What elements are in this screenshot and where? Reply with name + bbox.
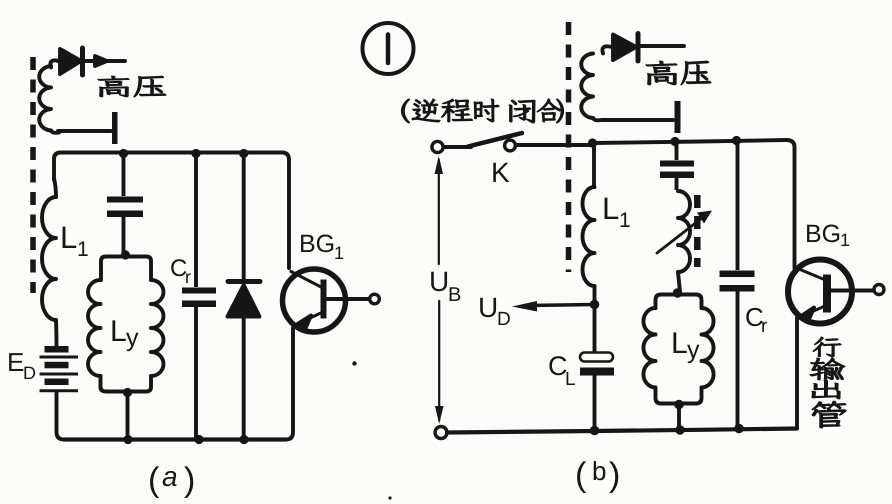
inductor L1 (a)	[42, 178, 57, 345]
svg-text:1: 1	[77, 238, 89, 261]
label Ly (a)	[110, 315, 139, 352]
label 高压 (a)	[98, 76, 166, 97]
svg-text:b: b	[592, 456, 606, 486]
label Cr (b)	[745, 302, 768, 337]
adjustable core dashes (b)	[694, 195, 701, 267]
label BG1 (a)	[299, 230, 344, 263]
rectifier diode (b)	[613, 34, 684, 62]
label BG1 (b)	[805, 220, 850, 250]
caption (a)	[148, 461, 195, 499]
svg-text:U: U	[478, 292, 498, 323]
adjust arrow through coil (b)	[657, 211, 712, 254]
svg-text:D: D	[23, 363, 36, 383]
transistor BG1 (a)	[283, 269, 380, 440]
svg-text:y: y	[687, 336, 700, 364]
svg-text:K: K	[491, 157, 510, 188]
scan speck 2	[388, 496, 391, 499]
label 行输出管 (line output transistor)	[810, 337, 846, 428]
svg-text:(: (	[575, 456, 587, 494]
svg-text:1: 1	[619, 209, 631, 232]
svg-text:y: y	[126, 324, 139, 352]
label UD	[478, 292, 511, 330]
wire bottom bus (b)	[447, 429, 797, 433]
label ED	[7, 347, 36, 383]
wire Ly bottom to bottom bus	[123, 388, 133, 444]
scan speck	[352, 361, 356, 365]
wire bottom bus (a)	[64, 437, 286, 441]
label K	[491, 157, 510, 188]
wire Ly bottom to bottom bus (b)	[674, 400, 685, 435]
svg-text:L: L	[60, 220, 77, 255]
svg-text:BG: BG	[805, 220, 841, 248]
svg-text:1: 1	[334, 243, 344, 263]
node Ly top (b)	[673, 288, 683, 298]
node CL / bottom bus (b)	[590, 426, 600, 436]
voltage arrow UD	[512, 301, 595, 312]
svg-text:L: L	[671, 327, 688, 360]
capacitor Cr (b)	[720, 136, 755, 433]
label 高压 (b)	[646, 61, 711, 85]
high-voltage winding coil (b)	[581, 46, 673, 120]
inductor L1 (b)	[583, 143, 595, 352]
HV output terminal bar (b)	[675, 101, 681, 133]
voltage arrow UB	[435, 156, 444, 424]
label L1 (a)	[60, 220, 89, 261]
svg-text:E: E	[7, 347, 24, 377]
svg-text:B: B	[448, 284, 461, 306]
capacitor C1 (a)	[107, 153, 143, 255]
svg-text:r: r	[185, 267, 191, 287]
capacitor Cr (a)	[182, 149, 216, 444]
svg-text:L: L	[110, 315, 127, 348]
switch K	[432, 133, 593, 153]
node switch/top bus (b)	[588, 138, 597, 147]
label (逆程时闭合) switch note	[402, 99, 564, 123]
svg-text:L: L	[602, 191, 619, 226]
inductor Ly (b) loop	[643, 295, 713, 404]
rectifier diode D1 (a)	[58, 48, 125, 75]
svg-text:a: a	[162, 461, 178, 492]
svg-text:): )	[184, 461, 195, 499]
svg-text:D: D	[497, 309, 511, 330]
label CL (b)	[548, 351, 576, 390]
label L1 (b)	[602, 191, 631, 232]
wire top bus (a)	[54, 153, 289, 269]
variable inductor (linearity coil) (b)	[678, 191, 690, 292]
node UD / L1 (b)	[590, 300, 600, 310]
terminal bottom-left (b)	[435, 427, 447, 439]
caption (b)	[575, 456, 620, 494]
transformer core dashed line (a)	[30, 57, 36, 293]
series capacitor C2 (b)	[660, 142, 694, 191]
svg-text:BG: BG	[299, 230, 335, 258]
label Cr (a)	[170, 255, 191, 287]
label UB	[429, 266, 461, 306]
transistor BG1 (b)	[788, 260, 884, 429]
damper diode D2 (a)	[228, 149, 261, 444]
svg-text:(: (	[148, 461, 160, 499]
wire top bus (b)	[593, 140, 795, 268]
high-voltage winding coil (a)	[39, 60, 60, 132]
capacitor CL (b)	[580, 353, 614, 431]
node top bus / C2 (b)	[670, 137, 679, 146]
svg-text:1: 1	[840, 230, 850, 250]
HV output lead and terminal bar (a)	[58, 112, 118, 144]
svg-text:): )	[609, 456, 620, 494]
wire Ly top to C1 / node	[121, 250, 130, 259]
svg-text:L: L	[565, 369, 576, 390]
svg-text:r: r	[761, 316, 768, 337]
node top bus / C1 branch (a)	[119, 149, 128, 158]
inductor Ly (a) loop	[88, 257, 164, 392]
circled figure number 1	[363, 23, 414, 74]
wire battery to bottom bus	[57, 392, 65, 440]
transformer core dashed line (b)	[566, 22, 572, 272]
svg-text:U: U	[429, 266, 449, 297]
battery ED	[40, 346, 79, 391]
label Ly (b)	[671, 327, 700, 364]
